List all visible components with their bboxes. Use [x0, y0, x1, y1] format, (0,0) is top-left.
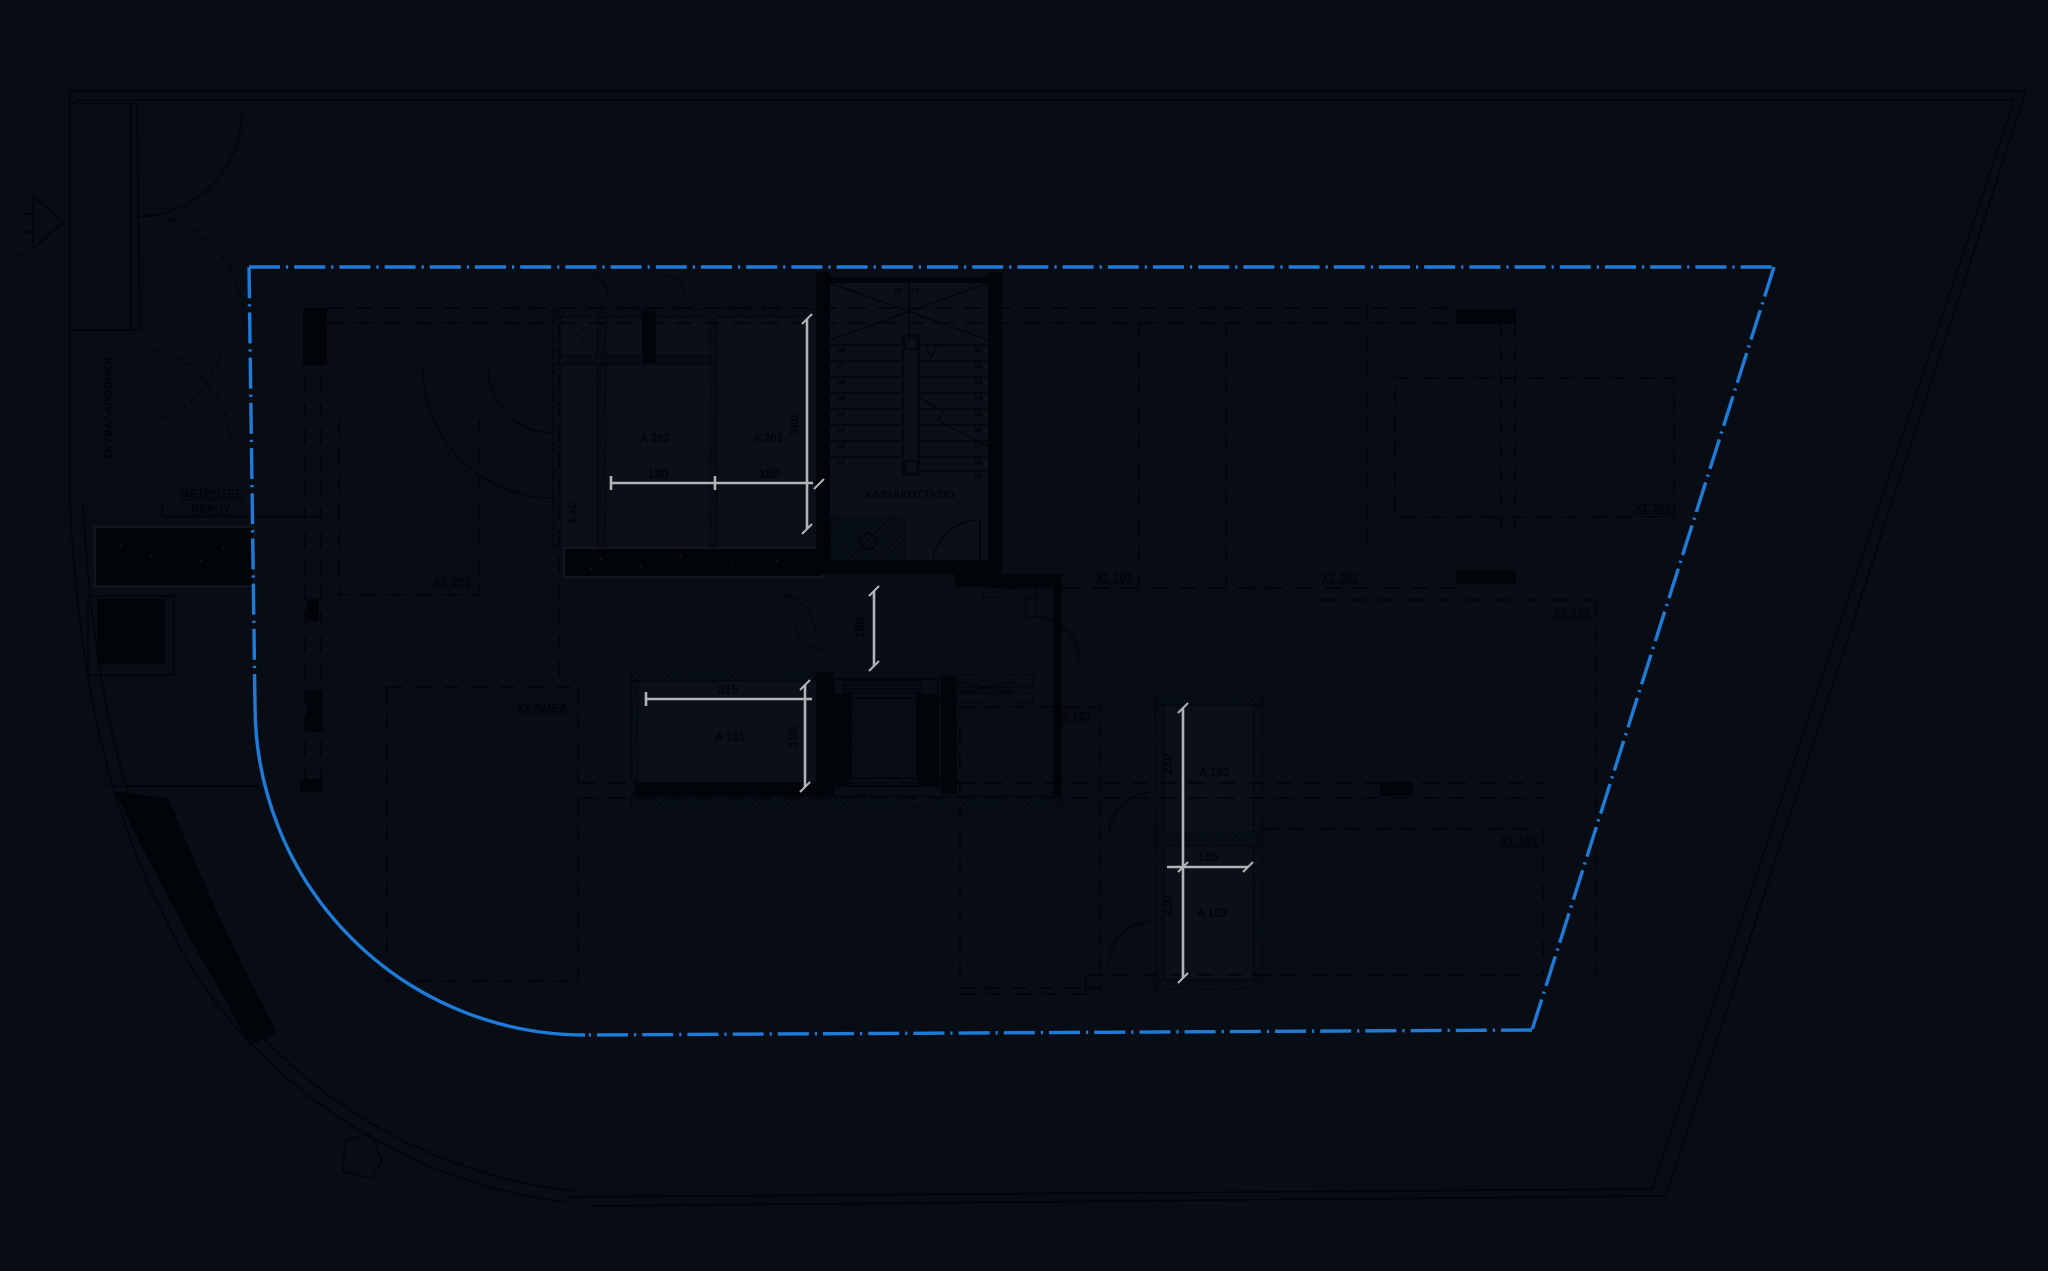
wing left wall column: [941, 677, 957, 794]
elevator cab interior: [851, 698, 917, 778]
planter box lower: [97, 599, 165, 664]
blue property line left vertical: [249, 267, 255, 705]
wing door arc: [1036, 617, 1079, 660]
svg-text:ΧΣ 202: ΧΣ 202: [1322, 573, 1359, 585]
wall A202-A201: [710, 309, 717, 547]
storage block interior floor: [561, 317, 816, 547]
svg-text:10: 10: [911, 286, 919, 295]
wall top small rooms: [553, 356, 710, 364]
planter box upper: [95, 527, 254, 586]
svg-text:06: 06: [837, 377, 845, 386]
svg-text:ΧΣ 201: ΧΣ 201: [1096, 573, 1134, 585]
window bowtie symbol: [960, 682, 1011, 693]
planter band under storage block: [564, 548, 822, 577]
svg-text:180: 180: [648, 467, 669, 481]
dim line 150 vertical: [873, 591, 876, 666]
planter speckles upper: [120, 540, 224, 570]
street kerb outer curve: [70, 505, 565, 1202]
landing centre line: [908, 283, 910, 340]
svg-text:ΧΣ 201: ΧΣ 201: [434, 577, 472, 589]
dim ticks A102 block: [1178, 703, 1253, 983]
elevator shaft right wall: [917, 694, 938, 785]
entrance arrow glyph: [24, 196, 63, 249]
site boundary left vertical: [69, 91, 71, 505]
stall XS103 dashed edges: [959, 829, 1543, 994]
stall row1 bottom dashed right part: [1005, 587, 1455, 589]
flight arrow head: [925, 345, 937, 358]
site boundary right diagonal inner: [1652, 100, 2014, 1189]
svg-text:02: 02: [837, 441, 845, 450]
A103 bottom wall: [1155, 980, 1262, 989]
wall A101-elevator: [816, 672, 834, 796]
wall EAC-A202: [597, 317, 606, 547]
curved planter strip along street: [116, 792, 276, 1045]
svg-text:11: 11: [974, 345, 982, 354]
meters box left tick: [161, 505, 163, 517]
svg-text:230: 230: [1161, 896, 1175, 917]
column pilotis 1: [303, 308, 327, 365]
dim line 230 vertical A102: [1182, 708, 1185, 978]
curved strip top edge line: [106, 785, 260, 787]
dim 195 end slashes: [800, 680, 810, 792]
svg-text:01: 01: [837, 457, 845, 466]
stair door leaf: [979, 520, 981, 568]
site boundary right diagonal outer: [1666, 91, 2026, 1196]
pilotis edge dashed vertical pair: [304, 325, 306, 780]
svg-text:04: 04: [837, 409, 846, 418]
A102 interior floor: [1164, 705, 1253, 832]
svg-text:380: 380: [788, 415, 802, 436]
svg-text:A 102: A 102: [1199, 767, 1229, 779]
corridor door arc: [781, 594, 815, 632]
column pilotis 2: [307, 599, 319, 621]
svg-text:12: 12: [974, 361, 982, 370]
svg-text:15: 15: [974, 409, 982, 418]
A101 top wall: [631, 672, 816, 681]
dim 315 tick left: [645, 692, 648, 706]
svg-text:07: 07: [837, 361, 845, 370]
garbage room top edge: [70, 102, 137, 104]
wing window wall lower band: [941, 693, 1033, 702]
floor drain circle: [860, 533, 876, 549]
A102-A103 divider wall: [1155, 832, 1262, 846]
stair hatched lower landing: [830, 518, 905, 560]
svg-text:16: 16: [974, 425, 982, 434]
meters box underline: [162, 516, 322, 518]
top parking row dashed line upper: [327, 307, 1455, 309]
A102 block top wall: [1155, 696, 1262, 705]
svg-text:ΧΣ ΑΜΕΑ: ΧΣ ΑΜΕΑ: [516, 703, 567, 715]
A101 interior floor: [638, 681, 816, 782]
building west edge dashed projection: [558, 323, 560, 687]
svg-text:195: 195: [786, 727, 800, 748]
dim tick slash right: [814, 479, 824, 489]
dim 150 end slashes: [869, 586, 879, 671]
wing junction column: [980, 560, 1002, 581]
stair left wall: [816, 272, 830, 574]
wing top room hatch wall: [983, 587, 1036, 597]
stall divider vertical x1226: [1225, 323, 1227, 588]
dim 380 end slashes: [802, 314, 812, 534]
A103 interior floor: [1164, 846, 1253, 980]
stair bottom wall: [816, 560, 1002, 574]
planter band speckles: [590, 556, 778, 570]
svg-text:315: 315: [718, 683, 739, 697]
stall XS101 dashed rect: [960, 707, 1100, 988]
stall XS102 right edge dashed: [1595, 600, 1597, 975]
blue property line top: [249, 265, 1774, 268]
gate swing arc lower dashed: [138, 214, 244, 322]
dim line 315 horizontal: [646, 698, 812, 701]
stair top wall: [816, 277, 1002, 283]
storage block left wall: [553, 317, 561, 547]
traffic island polygon: [343, 1133, 382, 1178]
svg-text:A 202: A 202: [640, 433, 670, 445]
svg-text:A 101: A 101: [715, 732, 746, 744]
svg-text:180: 180: [759, 467, 780, 481]
elevator sill stripes: [842, 681, 922, 693]
corridor door arc 2: [793, 620, 828, 650]
svg-text:ΧΣ 202: ΧΣ 202: [1635, 503, 1672, 515]
gate swing dashed arc a: [138, 340, 222, 425]
storage block top wall: [553, 309, 820, 317]
building bottom hatched band: [631, 796, 1062, 808]
dim line 380 vertical: [806, 319, 809, 529]
site boundary top line inner: [75, 99, 2014, 101]
svg-text:14: 14: [974, 393, 983, 402]
svg-text:EAC: EAC: [568, 501, 579, 522]
gate swing dashed arc b: [140, 348, 230, 440]
svg-text:ΣΚΥΒΑΛΑΠΟΘΗΚΗ: ΣΚΥΒΑΛΑΠΟΘΗΚΗ: [103, 357, 115, 459]
svg-text:17: 17: [974, 441, 982, 450]
stall XS202 upper-right dashed rect: [1395, 378, 1674, 517]
row2 top dashed line: [1320, 599, 1596, 601]
svg-text:165: 165: [1198, 850, 1219, 864]
wing window wall upper band: [941, 675, 1033, 687]
stall divider vertical x1367: [1366, 306, 1368, 553]
landing X diagonal 1: [830, 283, 988, 340]
black wall rect row2 right: [1456, 570, 1516, 584]
planter bed outline lower: [88, 596, 174, 675]
wing right wall: [1053, 587, 1062, 796]
black wall rect row1 right: [1456, 309, 1516, 324]
row2 divider dashed pair: [580, 782, 1543, 784]
garbage room left wall: [130, 103, 132, 330]
stair steps right flight: [917, 345, 988, 471]
entry door swing arc outer: [423, 368, 553, 498]
wing top room corner hatch: [1026, 597, 1036, 617]
wing top wall black: [954, 574, 1062, 587]
street kerb inner curve: [83, 505, 575, 1191]
stall divider vertical x1139: [1138, 323, 1140, 588]
stair right wall: [988, 272, 1002, 586]
svg-text:19: 19: [974, 471, 982, 480]
svg-text:13: 13: [974, 377, 982, 386]
stringer bottom square: [905, 461, 917, 473]
blue property line bottom: [585, 1030, 1532, 1035]
svg-text:ΧΣ 102: ΧΣ 102: [1554, 608, 1591, 620]
garbage room right wall: [137, 103, 140, 330]
site boundary bottom line upper: [568, 1189, 1652, 1197]
dim line 165 horizontal A103: [1167, 866, 1248, 869]
svg-text:08: 08: [837, 345, 845, 354]
svg-text:150: 150: [853, 618, 867, 639]
stall XS201-left dashed rect: [339, 420, 479, 595]
dashed diagonal in small room: [562, 320, 596, 354]
A101 bottom black wall: [635, 782, 816, 796]
black bar in top rooms: [642, 311, 656, 363]
elevator shaft outer: [834, 679, 938, 786]
svg-text:A 201: A 201: [753, 433, 784, 445]
A101 left wall: [631, 681, 638, 782]
flight break zigzag: [917, 396, 988, 446]
small tick mark: [12, 253, 24, 257]
svg-text:230: 230: [1161, 754, 1175, 775]
stringer top square: [905, 337, 917, 349]
svg-text:ΜΕΤΡΗΤΕΣ: ΜΕΤΡΗΤΕΣ: [180, 489, 242, 501]
svg-text:ΧΣ 101: ΧΣ 101: [1055, 711, 1093, 723]
site boundary bottom line lower: [591, 1196, 1666, 1206]
site boundary top line outer: [69, 90, 2026, 92]
stair interior floor: [830, 283, 988, 560]
entry door swing arc inner: [488, 368, 553, 433]
svg-text:09: 09: [894, 286, 902, 295]
landing X diagonal 2: [830, 283, 988, 340]
black wall rect row3 right: [1380, 782, 1413, 796]
A103 door arc: [1109, 921, 1151, 966]
svg-text:ΚΛΙΜΑΚΟΣΤΑΣΙΟ: ΚΛΙΜΑΚΟΣΤΑΣΙΟ: [865, 489, 956, 501]
svg-text:18: 18: [974, 457, 982, 466]
svg-text:03: 03: [837, 425, 845, 434]
top parking row dashed line lower: [327, 322, 1455, 324]
top door arc 2: [660, 274, 686, 300]
garbage room bottom edge: [70, 329, 140, 331]
column pilotis 3: [306, 690, 323, 732]
A102 block right wall: [1253, 705, 1262, 989]
blue property line right diagonal: [1532, 267, 1774, 1030]
elevator shaft left wall: [834, 694, 851, 785]
dim line 195 vertical: [804, 685, 807, 787]
top door arc 1: [586, 274, 608, 296]
svg-text:05: 05: [837, 393, 845, 402]
svg-text:A 103: A 103: [1197, 908, 1227, 920]
stall XS AMEA dashed rect: [387, 687, 578, 981]
svg-text:ΧΣ 103: ΧΣ 103: [1501, 836, 1538, 848]
stringer double line: [903, 335, 919, 475]
stair steps left flight: [830, 345, 901, 457]
dim line 180+180 horizontal: [611, 482, 813, 485]
A102 door arc: [1109, 792, 1153, 834]
blue property line arc corner: [255, 705, 585, 1035]
A102 block left wall: [1155, 705, 1164, 989]
dim tick left: [610, 476, 613, 490]
double dashed vertical pair right: [1500, 324, 1502, 541]
stair door arc: [932, 520, 980, 568]
svg-text:ΝΕΡΟΥ: ΝΕΡΟΥ: [191, 504, 231, 516]
dim tick centre: [714, 476, 717, 490]
column pilotis 4: [300, 779, 323, 792]
gate swing arc upper: [136, 111, 242, 217]
elevator guide marks: [851, 710, 857, 746]
